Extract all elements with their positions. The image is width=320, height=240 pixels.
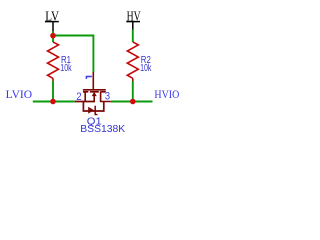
svg-text:BSS138K: BSS138K xyxy=(80,124,125,135)
wire HV to R2 xyxy=(132,30,134,43)
svg-text:LVIO: LVIO xyxy=(6,87,33,101)
transistor Q1 substrate arrow xyxy=(92,92,97,96)
transistor Q1 channel segments xyxy=(83,91,88,93)
wire junction to gate (horizontal + vertical) xyxy=(53,35,93,72)
supply HV pin stub xyxy=(132,22,134,30)
transistor Q1 drain lead xyxy=(101,92,111,102)
supply HV bar xyxy=(126,21,140,23)
transistor Q1 source lead xyxy=(84,92,86,102)
resistor R1 zigzag xyxy=(48,42,59,78)
wire junction to R1 xyxy=(52,37,54,42)
svg-text:2: 2 xyxy=(76,91,81,103)
resistor R2 bottom pin stub xyxy=(132,78,134,81)
pin number 1 (rotated) xyxy=(86,76,92,78)
wire Q1 pin3 to HVIO xyxy=(111,101,153,103)
supply LV pin stub xyxy=(52,22,54,31)
svg-text:3: 3 xyxy=(105,91,110,103)
junction dot LV xyxy=(50,33,56,39)
transistor Q1 pin2 lead xyxy=(75,101,95,103)
junction dot LVIO xyxy=(50,99,56,105)
svg-text:10k: 10k xyxy=(140,63,152,74)
svg-text:HVIO: HVIO xyxy=(154,87,179,101)
body diode loop xyxy=(83,102,103,112)
body diode cathode foot xyxy=(95,114,97,116)
body diode triangle xyxy=(88,107,94,114)
junction dot HVIO xyxy=(130,99,136,105)
transistor Q1 gate bar xyxy=(83,89,106,91)
body diode cathode bar xyxy=(94,106,96,116)
wire LVIO to Q1 pin2 xyxy=(33,100,75,102)
supply LV bar xyxy=(45,21,59,23)
resistor R1 bottom pin stub xyxy=(52,78,54,81)
wire R1 to LVIO junction xyxy=(52,81,54,100)
transistor Q1 gate lead xyxy=(92,72,94,89)
resistor R2 zigzag xyxy=(127,42,138,78)
svg-text:10k: 10k xyxy=(60,63,72,74)
transistor Q1 bulk lead xyxy=(93,96,95,103)
wire R2 to HVIO junction xyxy=(132,81,134,100)
wire LV to junction xyxy=(52,31,54,34)
